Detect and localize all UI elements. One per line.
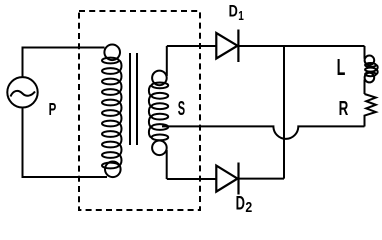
svg-text:D: D bbox=[229, 3, 238, 21]
svg-text:P: P bbox=[49, 100, 57, 120]
svg-text:1: 1 bbox=[238, 9, 244, 24]
svg-text:2: 2 bbox=[245, 199, 252, 215]
svg-text:S: S bbox=[178, 98, 185, 120]
svg-text:L: L bbox=[337, 56, 346, 81]
svg-text:R: R bbox=[339, 98, 349, 120]
svg-text:D: D bbox=[236, 193, 246, 214]
